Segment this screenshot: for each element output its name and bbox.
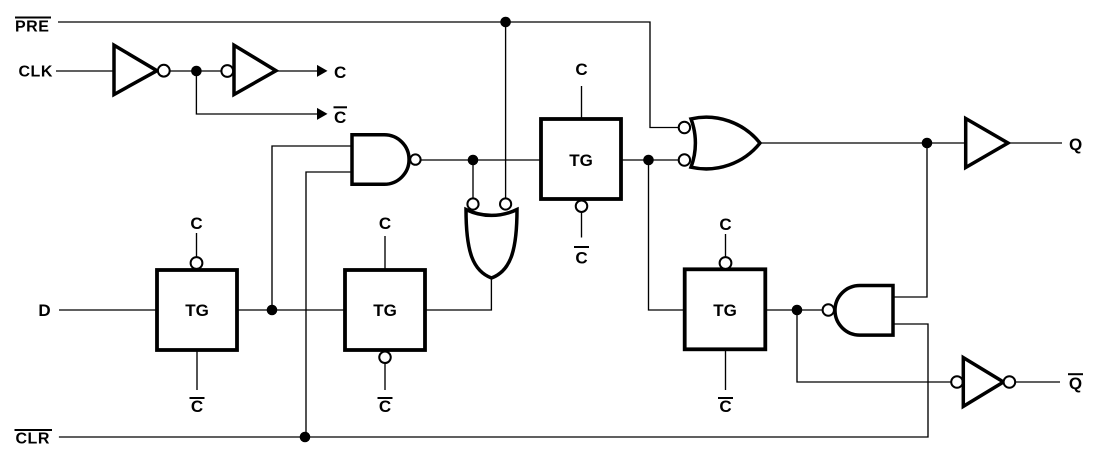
transmission gate TG1 [157,270,237,350]
svg-text:C: C [190,214,202,233]
wire Q node to NAND U4 input 1 [893,143,927,297]
wire TG4 output row [765,309,823,311]
OR gate OR1 (down-pointing) [466,210,517,279]
node D latch junction [267,305,278,316]
wire TG1 C pin [196,233,198,257]
bubble TG4 C pin [720,257,732,269]
bubble TG2 Cbar pin [379,352,391,364]
NAND gate U4 (left-pointing) [835,286,893,336]
svg-text:C: C [719,215,731,234]
bubble U2 input [221,65,233,77]
svg-text:TG: TG [373,301,397,320]
inverter U1 [114,45,157,94]
wire Q buffer output [1008,142,1062,144]
svg-text:C: C [379,397,391,416]
transmission gate TG4 [685,269,766,349]
wire TG4 node to Qbar buffer [797,310,952,382]
bubble OR1 input 2 [500,198,511,209]
OR gate OR2 [691,117,760,169]
wire TG3 output row [621,159,679,161]
node Q junction [922,138,933,149]
wire buffer U2 output to C arrow [276,70,317,72]
bubble U6 input [951,376,963,388]
node NAND output junction [468,155,479,166]
svg-text:Q: Q [1069,374,1082,393]
wire OR1 input 1 stub [472,160,474,199]
svg-text:PRE: PRE [15,19,49,36]
bubble TG3 Cbar pin [576,200,588,212]
node PRE junction [500,17,511,28]
bubble OR2 input 1 [679,122,690,133]
bubble U6 output [1004,376,1016,388]
svg-text:D: D [38,301,50,320]
wire TG4 C pin [725,234,727,257]
wire TG2 C pin [384,236,386,270]
wire NAND U3 input 1 from D node [272,146,352,310]
bubble U1 output [158,65,170,77]
wire NAND U3 input 2 from CLR rail [306,172,352,437]
wire NAND U3 output row [421,159,541,161]
svg-text:TG: TG [713,301,737,320]
buffer U5 (Q) [966,119,1008,168]
bubble OR1 input 1 [467,198,478,209]
transmission gate TG2 [345,270,425,350]
svg-text:TG: TG [569,151,593,170]
wire TG1 output row [237,309,345,311]
svg-text:TG: TG [185,301,209,320]
node TG3 output junction [643,155,654,166]
node TG4 output junction [792,305,803,316]
svg-text:CLK: CLK [19,64,53,81]
wire TG3 Cbar pin [581,212,583,237]
buffer U6 (Qbar) [963,358,1003,407]
NAND gate U3 [352,135,409,185]
wire TG1 Cbar pin [196,350,198,390]
wire PRE rail [58,22,679,128]
node CLR junction [300,432,311,443]
buffer U2 [234,45,276,94]
svg-text:C: C [191,397,203,416]
wire Cbar branch [196,71,317,114]
svg-text:C: C [719,397,731,416]
wire Qbar buffer output [1015,381,1060,383]
wire TG2 Cbar pin [384,364,386,391]
wire CLR rail to NAND U4 input 2 [59,324,928,437]
wire OR2 output row to Q buffer [759,142,966,144]
node CLK junction [191,66,202,77]
wire OR1 output to TG2 [425,277,491,310]
wire TG3 node down to TG4 input [649,160,685,310]
wire D input [59,309,157,311]
wire CLK input [56,70,114,72]
wire inverter U1 output [170,70,222,72]
svg-text:CLR: CLR [16,431,50,448]
bubble TG1 C pin [191,257,203,269]
bubble U3 output [410,154,420,164]
arrow C output [317,65,328,77]
svg-text:Q: Q [1069,135,1082,154]
svg-text:C: C [334,108,346,127]
bubble OR2 input 2 [679,154,690,165]
wire PRE branch down to OR1 input 2 [505,22,507,199]
svg-text:C: C [334,63,346,82]
arrow Cbar output [317,108,328,120]
wire TG3 C pin [581,86,583,119]
wire TG4 Cbar pin [725,349,727,390]
transmission gate TG3 [541,119,621,199]
svg-text:C: C [575,60,587,79]
svg-text:C: C [379,214,391,233]
svg-text:C: C [575,249,587,268]
bubble U4 output [823,304,834,315]
